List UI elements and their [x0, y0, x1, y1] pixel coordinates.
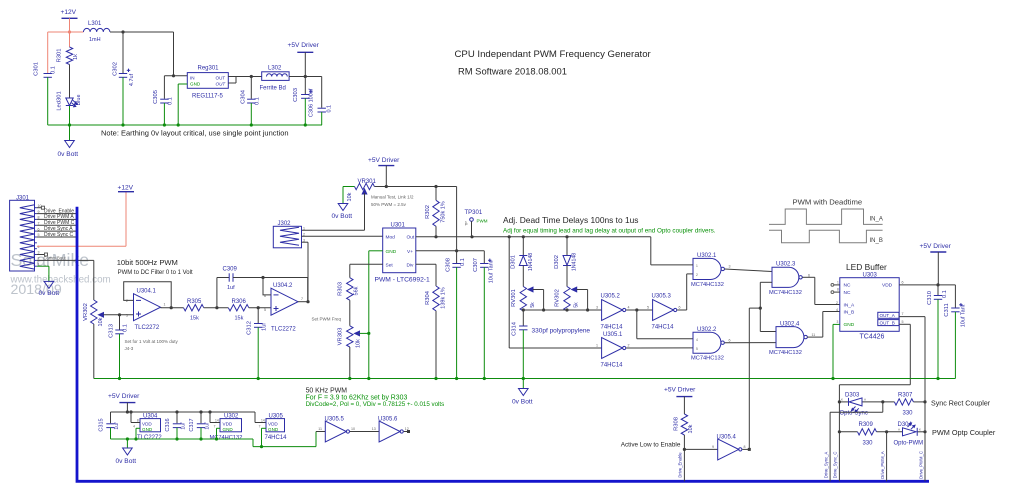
capacitor C311: [944, 285, 967, 379]
svg-text:1k: 1k: [73, 54, 79, 60]
svg-text:GND: GND: [190, 82, 201, 87]
svg-text:MC74HC132: MC74HC132: [691, 282, 724, 288]
power +5V Driver (top): [288, 42, 320, 77]
note set pwm freq: [312, 317, 342, 322]
svg-text:U302.3: U302.3: [776, 261, 796, 267]
svg-text:139k 1%: 139k 1%: [441, 287, 447, 309]
regulator Reg301: [187, 66, 228, 100]
wire R303-VR303: [349, 300, 351, 326]
svg-text:TP: TP: [465, 221, 469, 226]
wire U302.1 out: [725, 269, 772, 272]
svg-text:8: 8: [837, 288, 839, 292]
svg-text:D303: D303: [845, 393, 860, 399]
svg-text:Drive_Enable: Drive_Enable: [678, 452, 683, 478]
svg-text:GND: GND: [844, 322, 855, 328]
svg-text:MC74HC132: MC74HC132: [210, 435, 243, 441]
capacitor C317: [189, 412, 211, 439]
svg-text:10k: 10k: [688, 424, 694, 433]
node +5V driver top: [304, 75, 307, 78]
svg-text:4: 4: [628, 306, 630, 310]
svg-text:U305.3: U305.3: [652, 294, 672, 300]
svg-text:8: 8: [137, 419, 139, 423]
svg-text:C316: C316: [165, 418, 171, 431]
ic U305 power: [259, 413, 288, 446]
svg-text:1N4148: 1N4148: [572, 253, 578, 271]
svg-text:7: 7: [259, 424, 261, 428]
svg-text:2: 2: [628, 344, 630, 348]
svg-text:Reg301: Reg301: [198, 66, 220, 72]
power +5V Driver (bottom-left): [108, 393, 140, 412]
svg-text:11: 11: [318, 427, 322, 431]
svg-text:C301: C301: [34, 62, 40, 76]
wire U303 NC stubs: [831, 280, 840, 293]
nand U302.2: [691, 327, 731, 362]
wire J301 pin2 to VR302: [37, 255, 94, 300]
wire U301 V+: [416, 187, 485, 253]
wire J301 Drive Sync C: [37, 232, 77, 238]
svg-text:VDD: VDD: [268, 422, 278, 427]
svg-text:C305: C305: [153, 90, 159, 104]
wire main 0v rail: [94, 377, 956, 380]
svg-text:4: 4: [38, 245, 40, 249]
svg-text:U305.6: U305.6: [378, 417, 398, 423]
wire sync row: [838, 400, 927, 403]
svg-text:+5V Driver: +5V Driver: [108, 393, 140, 400]
svg-text:+5V Driver: +5V Driver: [920, 243, 952, 250]
svg-text:U304: U304: [143, 413, 158, 419]
svg-text:VR302: VR302: [83, 303, 89, 321]
wire J301 pin10 stub: [37, 206, 45, 209]
svg-text:1uf: 1uf: [181, 422, 187, 430]
ic U303 TC4426: [840, 272, 899, 340]
svg-text:15k: 15k: [190, 316, 199, 322]
resistor R307: [894, 393, 913, 417]
svg-text:C311: C311: [944, 303, 950, 316]
svg-text:11: 11: [812, 333, 816, 337]
svg-text:1uf: 1uf: [205, 422, 211, 430]
capacitor C301: [34, 62, 57, 125]
svg-text:74HC14: 74HC14: [652, 325, 675, 331]
svg-text:10: 10: [351, 427, 355, 431]
wire U305.5-U305.6: [350, 431, 379, 433]
wire reg GND: [178, 84, 187, 125]
svg-text:PWM to DC Filter 0 to 1 Volt: PWM to DC Filter 0 to 1 Volt: [118, 270, 193, 276]
svg-text:GND: GND: [268, 427, 279, 432]
inverter U305.4: [712, 435, 746, 460]
svg-text:14: 14: [261, 419, 265, 423]
svg-text:0.1: 0.1: [168, 97, 174, 105]
svg-text:VR301: VR301: [358, 179, 377, 185]
ferrite bead L302: [260, 66, 290, 92]
wire U304.1 out: [161, 306, 184, 309]
svg-text:0.1: 0.1: [255, 97, 261, 105]
svg-text:1uf: 1uf: [114, 422, 120, 430]
wire J301 pin3 stub: [37, 253, 48, 256]
svg-text:MC74HC132: MC74HC132: [691, 356, 724, 362]
svg-text:U305.4: U305.4: [717, 435, 737, 441]
resistor R306: [228, 299, 249, 322]
capacitor C302: [113, 32, 136, 125]
svg-text:Set PWM Freq: Set PWM Freq: [312, 317, 342, 322]
svg-text:1uf: 1uf: [227, 285, 235, 291]
svg-text:+12V: +12V: [118, 185, 134, 192]
wire U301 Set to R303: [350, 264, 383, 277]
svg-text:Blue: Blue: [76, 94, 82, 105]
svg-text:5: 5: [647, 306, 649, 310]
wire cross-couple enable: [749, 282, 776, 449]
svg-text:TLC2272: TLC2272: [135, 325, 160, 331]
svg-text:C313: C313: [109, 324, 115, 338]
svg-text:V+: V+: [407, 249, 413, 255]
svg-text:TC4426: TC4426: [860, 334, 885, 341]
svg-text:10bit 500Hz PWM: 10bit 500Hz PWM: [117, 258, 178, 267]
svg-text:PWM - LTC6992-1: PWM - LTC6992-1: [375, 277, 431, 284]
diode D301: [511, 237, 535, 287]
wire U303 IN_A/IN_B pins: [836, 301, 838, 312]
wire J302 pin2 to Mod: [302, 235, 383, 237]
capacitor C312: [247, 308, 268, 379]
potentiometer VR303: [338, 326, 369, 379]
svg-text:PWM with Deadtime: PWM with Deadtime: [793, 198, 863, 207]
svg-text:RV302: RV302: [555, 289, 561, 307]
ic U302 power: [210, 412, 243, 441]
wire +5V row: [374, 185, 456, 188]
inverter U305.1: [596, 332, 630, 369]
svg-text:1N4148: 1N4148: [528, 253, 534, 271]
svg-text:C309: C309: [223, 267, 238, 273]
svg-text:OUT_B: OUT_B: [880, 320, 895, 325]
svg-text:PWM: PWM: [477, 219, 488, 224]
svg-text:R301: R301: [57, 49, 63, 63]
svg-text:GND: GND: [223, 427, 234, 432]
inductor L301: [84, 21, 110, 43]
svg-text:VDD: VDD: [882, 283, 893, 289]
svg-text:5: 5: [696, 347, 698, 351]
svg-text:D301: D301: [511, 255, 517, 269]
svg-text:0v Bott: 0v Bott: [58, 151, 79, 158]
wire U305.2 out: [626, 308, 693, 338]
svg-text:R305: R305: [187, 299, 202, 305]
svg-text:Comm Bout: Comm Bout: [44, 255, 67, 260]
ic U304 power: [131, 412, 162, 441]
wire U305.1 out: [626, 347, 693, 349]
wire +12V red: [48, 32, 84, 73]
resistor R308: [674, 414, 695, 449]
wire U302.2 out: [725, 342, 776, 344]
svg-text:J302: J302: [278, 221, 292, 227]
svg-text:0v Bott: 0v Bott: [332, 213, 353, 220]
svg-text:LED Buffer: LED Buffer: [846, 262, 887, 272]
ic U301 LTC6992: [375, 223, 431, 284]
svg-text:Manual Test, Link 1/2: Manual Test, Link 1/2: [371, 195, 414, 200]
note manual test: [371, 195, 414, 208]
svg-text:330: 330: [903, 411, 914, 417]
svg-text:OUT_A: OUT_A: [880, 313, 896, 318]
wire OUT_B route: [839, 320, 910, 482]
svg-text:L302: L302: [268, 66, 282, 72]
svg-text:3: 3: [837, 320, 839, 324]
svg-text:+12V: +12V: [61, 9, 77, 16]
svg-text:CPU Independant PWM Frequency: CPU Independant PWM Frequency Generator: [455, 49, 652, 60]
svg-text:750k 1%: 750k 1%: [441, 201, 447, 223]
svg-text:Div: Div: [407, 263, 415, 269]
svg-text:0v Bott: 0v Bott: [512, 399, 533, 406]
svg-text:6: 6: [679, 306, 681, 310]
wire reg OUT: [228, 77, 261, 84]
resistor R309: [858, 422, 877, 447]
svg-text:VDD: VDD: [142, 422, 152, 427]
led Led301: [57, 91, 83, 125]
wire RC node row: [522, 308, 602, 311]
svg-text:U304.2: U304.2: [273, 283, 293, 289]
svg-text:C307: C307: [473, 258, 479, 272]
svg-text:J301: J301: [16, 195, 30, 201]
wire J302 pin3 to filter out: [302, 242, 309, 302]
node C313 top: [118, 313, 121, 316]
wire VR301 wiper to J302: [302, 193, 365, 230]
svg-text:C314: C314: [512, 321, 518, 336]
potentiometer VR301: [347, 179, 377, 201]
wire R305-R306: [204, 306, 229, 309]
wire U304.2 feedback: [261, 276, 271, 295]
svg-text:4: 4: [133, 424, 135, 428]
label drive_sync_C: [833, 430, 841, 478]
svg-text:C304: C304: [241, 89, 247, 104]
svg-text:U305.2: U305.2: [601, 294, 621, 300]
svg-text:VR303: VR303: [338, 328, 344, 346]
svg-text:A: A: [898, 428, 900, 432]
ground 0v Bott (main rail): [512, 379, 533, 406]
svg-text:10k: 10k: [347, 192, 353, 201]
svg-text:3: 3: [729, 265, 731, 269]
svg-text:C302: C302: [113, 62, 119, 76]
svg-text:TLC2272: TLC2272: [137, 435, 162, 441]
svg-text:R306: R306: [232, 299, 247, 305]
testpoint TP301: [465, 210, 488, 237]
svg-text:OUT: OUT: [216, 82, 227, 87]
wire 0v rail (top-left): [48, 123, 322, 126]
svg-text:DivCode=2, Pol = 0, VDiv = 0.7: DivCode=2, Pol = 0, VDiv = 0.78125 +- 0.…: [306, 401, 445, 408]
ground 0v Bott (power section): [116, 439, 137, 465]
title text: [455, 49, 652, 77]
power +5V Driver (VR301): [368, 157, 400, 187]
svg-text:10uf Tant: 10uf Tant: [961, 304, 967, 327]
svg-text:1uf: 1uf: [262, 323, 268, 331]
svg-text:Ferrite Bd: Ferrite Bd: [260, 86, 286, 92]
capacitor C306: [309, 77, 333, 126]
capacitor C310: [927, 285, 948, 379]
power +12V: [61, 9, 78, 32]
capacitor C308: [446, 251, 467, 379]
svg-text:74HC14: 74HC14: [601, 325, 624, 331]
svg-text:2: 2: [126, 299, 128, 303]
svg-text:6: 6: [808, 273, 810, 277]
wire U305.4 out up: [742, 448, 751, 451]
svg-text:0.1: 0.1: [123, 324, 129, 332]
svg-text:Drive_PWM_A: Drive_PWM_A: [880, 451, 885, 479]
wire U304.1 feedback: [124, 282, 172, 308]
wire reg input row: [164, 75, 187, 77]
power +5V Driver (R308): [664, 387, 696, 415]
svg-text:A: A: [864, 398, 866, 402]
svg-text:+5V Driver: +5V Driver: [664, 387, 696, 394]
svg-text:U301: U301: [391, 223, 406, 229]
wire +12V to J301 pin4: [37, 185, 134, 247]
wire U302.3 out to IN_A: [802, 277, 839, 304]
inverter U305.5: [318, 417, 355, 443]
svg-text:0.1: 0.1: [51, 66, 57, 74]
heading dead time: [503, 215, 638, 225]
wire J301 Drive PWM A: [37, 214, 77, 220]
svg-text:Opto-Sync: Opto-Sync: [840, 411, 868, 417]
svg-text:R303: R303: [338, 282, 344, 296]
svg-text:C315: C315: [99, 418, 105, 431]
op-amp U304.1: [126, 289, 166, 332]
svg-text:1: 1: [696, 264, 698, 268]
capacitor C309: [217, 267, 308, 308]
svg-text:4: 4: [696, 338, 698, 342]
svg-text:VDD: VDD: [223, 422, 233, 427]
nand U302.3: [769, 261, 810, 296]
svg-text:0v Bott: 0v Bott: [116, 458, 137, 465]
svg-text:R307: R307: [898, 393, 913, 399]
label pwm optp coupler: [932, 428, 996, 437]
svg-text:Mod: Mod: [386, 235, 396, 241]
svg-text:14: 14: [215, 419, 219, 423]
svg-text:U302.1: U302.1: [697, 253, 717, 259]
svg-text:7: 7: [301, 297, 303, 301]
svg-text:Drive_Sync_C: Drive_Sync_C: [833, 452, 838, 479]
svg-text:1: 1: [164, 303, 166, 307]
svg-text:Set for 1 Volt at 100% duty: Set for 1 Volt at 100% duty: [125, 339, 179, 344]
capacitor C307: [473, 251, 495, 379]
svg-text:NC: NC: [844, 283, 851, 289]
svg-text:Drive Sync C: Drive Sync C: [44, 232, 74, 238]
svg-text:7: 7: [902, 312, 904, 316]
capacitor C315: [99, 412, 121, 439]
node +12V junction: [68, 30, 71, 33]
wire drive_pwm_A: [880, 432, 887, 482]
svg-text:R302: R302: [425, 205, 431, 219]
nand U302.4: [769, 321, 815, 356]
power +5V Driver (U303): [920, 243, 952, 285]
note set for 1 volt: [125, 339, 179, 351]
svg-text:Led301: Led301: [57, 91, 63, 110]
svg-text:RM Software 2018.08.001: RM Software 2018.08.001: [458, 66, 567, 77]
label sync rect coupler: [931, 400, 991, 408]
svg-text:56k: 56k: [354, 286, 360, 295]
wire R306 out: [249, 306, 271, 309]
svg-text:330pf polypropylene: 330pf polypropylene: [532, 328, 591, 335]
ground 0v Bott (VR301): [332, 204, 353, 221]
resistor R301: [57, 32, 80, 65]
svg-text:MC74HC132: MC74HC132: [769, 290, 802, 296]
wire direct path to U305.1: [509, 237, 601, 348]
node C304 top: [250, 75, 253, 78]
op-amp U304.2: [264, 283, 303, 333]
watermark SolarMike: [10, 250, 111, 298]
svg-text:Drive_PWM_C: Drive_PWM_C: [918, 451, 923, 479]
svg-text:10uf Tant: 10uf Tant: [489, 260, 495, 283]
resistor R303: [338, 278, 360, 301]
potentiometer RV301: [511, 287, 544, 312]
svg-text:74HC14: 74HC14: [265, 435, 288, 441]
wire U301 GND: [367, 251, 383, 379]
potentiometer VR302: [83, 300, 134, 379]
svg-text:U302.4: U302.4: [780, 321, 800, 327]
wire R301-Led301: [69, 65, 71, 95]
svg-text:TLC2272: TLC2272: [271, 327, 296, 333]
svg-text:3: 3: [596, 306, 598, 310]
wire J301 Drive Sync A: [37, 226, 77, 232]
svg-text:2: 2: [836, 301, 838, 305]
svg-text:1: 1: [303, 227, 305, 231]
svg-text:10k: 10k: [356, 339, 362, 348]
wire vdd rail (power section): [111, 410, 267, 422]
svg-text:U305: U305: [269, 413, 284, 419]
wire J301 pin1 to ground: [37, 266, 49, 281]
svg-text:Adj for equal timing lead and: Adj for equal timing lead and lag delay …: [503, 228, 716, 235]
svg-text:Adj. Dead Time Delays 100ns to: Adj. Dead Time Delays 100ns to 1us: [503, 215, 638, 225]
svg-text:Drive_Sync_A: Drive_Sync_A: [823, 452, 828, 479]
svg-text:GND: GND: [386, 249, 397, 255]
svg-text:2: 2: [696, 273, 698, 277]
waveform heading: [793, 198, 863, 207]
svg-text:+5V Driver: +5V Driver: [368, 157, 400, 164]
svg-text:6: 6: [729, 339, 731, 343]
svg-text:5k: 5k: [530, 302, 536, 308]
potentiometer RV302: [555, 287, 588, 312]
svg-text:Set: Set: [386, 263, 394, 269]
svg-text:8: 8: [744, 445, 746, 449]
wire U304.2 out: [298, 300, 310, 303]
wire L302 out: [289, 76, 322, 78]
svg-text:C317: C317: [189, 418, 195, 431]
svg-text:K: K: [841, 398, 843, 402]
svg-text:PWM Optp Coupler: PWM Optp Coupler: [932, 428, 996, 437]
svg-text:C312: C312: [247, 321, 253, 335]
svg-text:1mH: 1mH: [89, 37, 101, 43]
label active low: [621, 442, 681, 449]
svg-text:NC: NC: [844, 290, 851, 296]
svg-text:4.7uf: 4.7uf: [129, 73, 135, 86]
svg-text:MC74HC132: MC74HC132: [769, 350, 802, 356]
svg-text:U305.5: U305.5: [325, 417, 345, 423]
diode D302: [554, 237, 578, 287]
svg-text:IN_A: IN_A: [870, 217, 883, 223]
heading 50KHz PWM: [306, 388, 445, 409]
wire OUT_A drop: [899, 312, 925, 481]
waveform IN_B: [769, 230, 883, 244]
svg-text:0.1: 0.1: [460, 258, 466, 266]
note earthing text: [101, 129, 289, 138]
svg-text:K: K: [919, 428, 921, 432]
J301 pin numbers: [38, 204, 42, 267]
svg-text:7: 7: [214, 424, 216, 428]
wire U303 VDD: [899, 280, 955, 286]
wire U301 Out row: [416, 235, 651, 238]
resistor R302: [425, 187, 447, 237]
connector J302: [273, 221, 305, 248]
connector J301: [10, 195, 37, 271]
svg-text:OUT: OUT: [216, 75, 226, 80]
wire U302.4 out to IN_B: [807, 312, 840, 338]
ground 0v Bott (J301): [39, 281, 60, 297]
svg-text:R308: R308: [674, 417, 680, 431]
svg-text:U304.1: U304.1: [137, 289, 157, 295]
svg-text:1: 1: [596, 344, 598, 348]
wire pwm row: [839, 430, 926, 433]
